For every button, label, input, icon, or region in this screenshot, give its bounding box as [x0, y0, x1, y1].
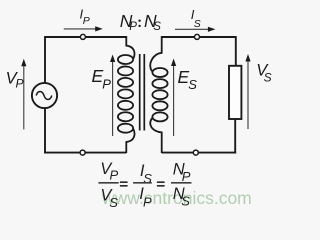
wire bottom-left horizontal — [44, 152, 126, 154]
transformer core line left — [139, 54, 141, 131]
svg-text:S: S — [181, 193, 190, 208]
svg-text:S: S — [153, 21, 161, 33]
voltage arrow VP — [21, 59, 26, 130]
resistor RL — [229, 66, 241, 119]
current arrow IP — [64, 26, 103, 31]
node top-right — [195, 34, 200, 39]
svg-text:P: P — [182, 169, 191, 184]
svg-text:P: P — [83, 15, 90, 27]
primary loop 6 — [118, 112, 133, 121]
wire top-right horizontal — [162, 36, 236, 38]
equation fraction IS/IP — [133, 162, 152, 210]
voltage arrow ES — [171, 59, 176, 137]
svg-text:P: P — [102, 77, 111, 92]
svg-text:P: P — [16, 77, 24, 91]
secondary loop 4 — [152, 101, 167, 110]
primary loop 5 — [118, 101, 133, 110]
equation fraction VP/VS — [98, 160, 118, 210]
wire left vertical upper — [44, 36, 46, 83]
equation fraction NP/NS — [171, 161, 192, 209]
wire left vertical lower — [44, 108, 46, 153]
primary loop 7 — [118, 124, 133, 133]
equation equals 2 — [157, 182, 165, 186]
svg-text:S: S — [194, 18, 201, 30]
node bottom-right — [193, 150, 198, 155]
secondary loop 1 — [152, 68, 167, 77]
wire top-left horizontal — [45, 36, 126, 38]
transformer primary winding exit — [126, 128, 134, 153]
svg-text:S: S — [188, 77, 197, 92]
label EP — [92, 66, 112, 92]
transformer secondary winding entry — [150, 36, 161, 71]
svg-text:S: S — [264, 71, 272, 85]
wire right vertical upper — [235, 36, 237, 66]
secondary loop 3 — [152, 90, 167, 99]
svg-text:S: S — [143, 171, 152, 186]
svg-text:P: P — [129, 21, 137, 33]
voltage arrow EP — [110, 55, 115, 137]
wire right vertical lower — [234, 119, 236, 153]
secondary loop 2 — [152, 79, 167, 88]
svg-text:S: S — [109, 195, 118, 210]
svg-text:P: P — [143, 195, 152, 210]
label NP : NS — [120, 11, 161, 33]
primary loop 2 — [118, 66, 133, 75]
transformer primary winding entry — [126, 36, 134, 59]
label IP — [80, 7, 90, 28]
secondary loop 5 — [152, 112, 167, 121]
label VP — [6, 69, 24, 90]
primary loop 4 — [118, 89, 133, 98]
svg-text:P: P — [110, 167, 119, 182]
label VS — [256, 62, 271, 85]
label IS — [191, 7, 201, 30]
equation equals 1 — [120, 182, 128, 186]
transformer secondary winding exit — [150, 118, 161, 153]
AC source V1 circle — [32, 83, 57, 108]
primary loop 1 — [118, 55, 133, 64]
node top-left — [80, 34, 85, 39]
wire bottom-right horizontal — [162, 152, 237, 154]
voltage arrow VS — [245, 54, 250, 129]
AC source sine wave — [36, 92, 52, 100]
current arrow IS — [175, 27, 215, 32]
node bottom-left — [80, 150, 85, 155]
label ES — [178, 67, 198, 92]
primary loop 3 — [118, 78, 133, 87]
transformer core line right — [143, 54, 145, 131]
